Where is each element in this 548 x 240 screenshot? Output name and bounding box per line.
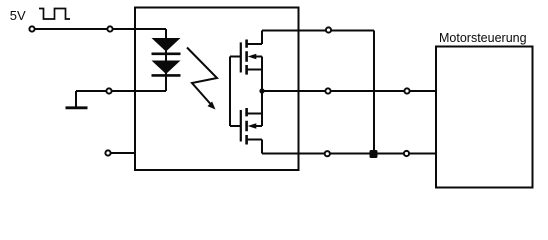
square wave signal symbol — [39, 9, 70, 20]
transistor Q2 body arrow — [248, 123, 262, 129]
transistor Q1 source lead — [247, 57, 262, 92]
LED D1 — [152, 38, 181, 54]
transistor Q1 channel — [245, 40, 248, 75]
node terminal T9 — [404, 151, 409, 156]
svg-text:5V: 5V — [10, 8, 26, 23]
transistor Q1 body arrow — [248, 54, 262, 60]
wire LED chain vertical — [165, 29, 167, 91]
node terminal T5 — [326, 27, 331, 32]
node common source junction — [259, 88, 264, 93]
node terminal T8 — [404, 88, 409, 93]
Motorsteuerung block — [436, 47, 533, 188]
node terminal T7 — [325, 151, 330, 156]
wire ground to LED cathode — [76, 90, 166, 92]
node terminal T1 — [29, 26, 34, 31]
wire input top (5V to optocoupler LED anode) — [32, 28, 166, 30]
label 5V supply — [10, 8, 26, 23]
node terminal T4 — [105, 150, 110, 155]
wire bottom rail output — [262, 153, 436, 155]
transistor Q2 (bottom MOSFET) gate bar — [240, 110, 242, 142]
node junction square on bottom rail — [370, 150, 378, 158]
wire middle rail output — [262, 90, 436, 92]
node terminal T3 — [106, 88, 111, 93]
light coupling zigzag arrow — [187, 48, 217, 110]
wire top rail output — [262, 30, 374, 32]
transistor Q2 drain lead — [247, 140, 262, 154]
node terminal T2 — [107, 26, 112, 31]
transistor Q2 source lead — [247, 91, 262, 126]
transistor Q1 (top MOSFET) gate bar — [240, 42, 242, 72]
wire vertical link top-to-bottom rail — [373, 31, 375, 155]
ground — [66, 91, 88, 108]
svg-text:Motorsteuerung: Motorsteuerung — [439, 31, 527, 45]
optocoupler relay box U1 — [135, 8, 299, 171]
wire stub bottom-left pin — [108, 152, 136, 154]
transistor Q2 channel — [245, 108, 248, 145]
transistor Q1 drain lead — [247, 31, 262, 45]
label Motorsteuerung — [439, 31, 527, 45]
wire gate bus — [230, 57, 241, 127]
node terminal T6 — [325, 88, 330, 93]
LED D2 — [152, 61, 181, 76]
